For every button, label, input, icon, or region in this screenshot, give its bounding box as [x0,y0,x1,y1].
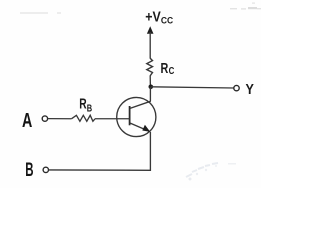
wire resistor to node [149,76,151,87]
svg-text:Y: Y [246,81,254,98]
wire node down to collector [149,87,151,101]
svg-text:A: A [22,110,32,132]
wire resistor RB to base [95,118,130,120]
transistor Q1 body circle [117,97,156,136]
wire A terminal to resistor RB [48,118,72,120]
svg-text:R: R [161,60,169,77]
svg-text:C: C [169,66,175,77]
label RB [79,97,92,115]
terminal Y open circle [234,85,239,90]
terminal A open circle [42,116,47,121]
power +VCC label [145,10,173,27]
transistor Q1 base bar [129,106,131,125]
scan smudge top-right [230,3,261,10]
terminal B open circle [43,167,48,172]
svg-text:CC: CC [161,16,173,27]
resistor RB zigzag [72,115,95,121]
label RC [161,60,175,77]
transistor Q1 emitter stroke with arrow [130,123,150,132]
resistor RC zigzag [147,58,153,76]
wire B terminal to emitter corner [49,132,151,170]
scan smudge top-left [20,12,48,14]
node collector junction dot [149,85,154,90]
transistor Q1 collector stroke [130,101,151,108]
svg-text:+V: +V [145,10,161,26]
svg-text:B: B [87,104,92,115]
svg-text:B: B [25,160,33,181]
wire node to Y terminal [151,87,234,88]
power arrow up [147,26,154,58]
scan smudge bottom-right [186,163,236,181]
